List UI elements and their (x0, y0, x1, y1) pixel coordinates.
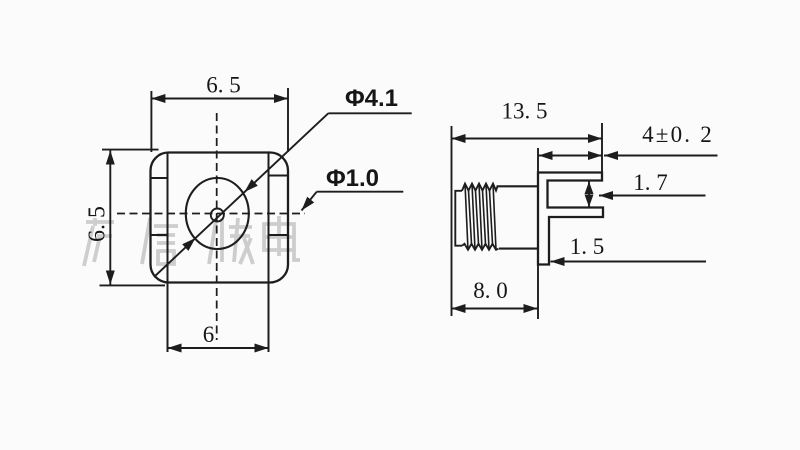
svg-text:1. 5: 1. 5 (570, 234, 605, 259)
svg-text:6. 5: 6. 5 (85, 206, 111, 242)
svg-text:1. 7: 1. 7 (633, 170, 668, 195)
svg-text:Φ4.1: Φ4.1 (345, 85, 398, 112)
svg-text:6: 6 (203, 322, 215, 347)
svg-text:6. 5: 6. 5 (206, 73, 241, 98)
svg-text:Φ1.0: Φ1.0 (326, 165, 379, 192)
svg-text:8. 0: 8. 0 (473, 278, 508, 303)
svg-text:13. 5: 13. 5 (502, 99, 548, 124)
svg-text:4±0. 2: 4±0. 2 (642, 122, 714, 147)
